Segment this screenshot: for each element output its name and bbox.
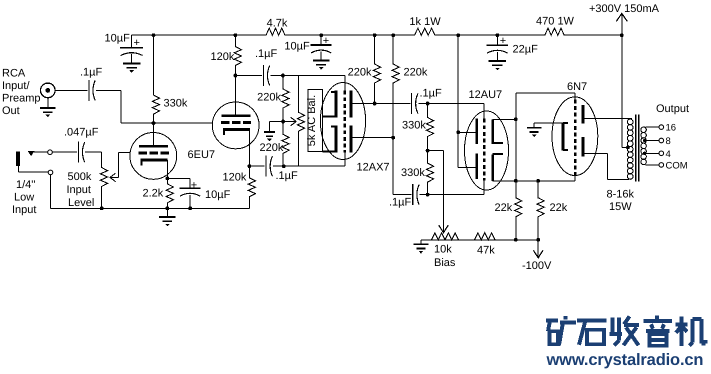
svg-text:22k: 22k bbox=[550, 202, 568, 214]
ground bus symbol bbox=[159, 208, 176, 226]
svg-text:COM: COM bbox=[666, 161, 688, 172]
node C8/330k bbox=[426, 193, 430, 197]
label transformer rating bbox=[607, 188, 635, 213]
ground 6N7 cathode bbox=[527, 123, 563, 137]
wire grid stub upper 12AU7 bbox=[483, 104, 485, 113]
svg-text:330k: 330k bbox=[402, 120, 426, 132]
resistor 330k paraphase upper bbox=[402, 104, 434, 151]
potentiometer 5k AC Bal bbox=[283, 76, 304, 167]
svg-text:12AU7: 12AU7 bbox=[469, 89, 503, 101]
node rail/120k V1b plate bbox=[234, 33, 238, 37]
svg-text:Input: Input bbox=[12, 204, 36, 216]
wire B+ center tap bbox=[622, 35, 630, 149]
resistor 1k 1W on rail bbox=[409, 16, 441, 35]
wire rail to 12AU7 plates bbox=[456, 35, 476, 167]
resistor 4.7k on rail bbox=[263, 18, 288, 36]
jack labels bbox=[12, 179, 36, 216]
node rail/220k lower bbox=[391, 33, 395, 37]
svg-text:22µF: 22µF bbox=[513, 44, 539, 56]
svg-text:500k: 500k bbox=[68, 171, 92, 183]
top B+ rail bbox=[132, 34, 622, 36]
svg-text:22k: 22k bbox=[495, 202, 513, 214]
svg-text:120k: 120k bbox=[223, 172, 247, 184]
svg-text:-100V: -100V bbox=[522, 260, 552, 272]
RCA input connector bbox=[41, 83, 56, 98]
wire cathode line to 6N7 grid bottom bbox=[516, 179, 575, 183]
svg-text:+: + bbox=[323, 35, 329, 47]
resistor 330k paraphase lower bbox=[401, 151, 434, 195]
ground RCA bbox=[40, 98, 56, 118]
ground bus bbox=[51, 207, 250, 209]
node divider center bbox=[281, 120, 285, 124]
capacitor C5 .1uF coupling to phase inverter bbox=[235, 48, 345, 86]
svg-text:Input/: Input/ bbox=[2, 80, 30, 92]
node 220k bottom bbox=[282, 164, 286, 168]
svg-text:330k: 330k bbox=[401, 167, 425, 179]
svg-text:47k: 47k bbox=[477, 245, 495, 257]
svg-text:120k: 120k bbox=[211, 51, 235, 63]
wire jack sleeve to ground bus bbox=[50, 175, 52, 209]
svg-text:Level: Level bbox=[68, 197, 94, 209]
resistor 330k plate load V1a bbox=[152, 86, 188, 123]
svg-text:.047µF: .047µF bbox=[64, 127, 99, 139]
capacitor C10 10uF decoupling bbox=[284, 35, 331, 60]
svg-text:6EU7: 6EU7 bbox=[188, 149, 216, 161]
tube V2 12AX7 phase inverter bbox=[320, 76, 365, 167]
wire jack tip to C3 bbox=[52, 151, 77, 153]
resistor 2.2k cathode V1a bbox=[143, 178, 174, 208]
svg-text:8: 8 bbox=[666, 136, 671, 147]
svg-text:220k: 220k bbox=[260, 142, 284, 154]
svg-text:Bias: Bias bbox=[434, 257, 456, 269]
resistor 220k plate load lower bbox=[392, 35, 428, 137]
svg-text:Low: Low bbox=[14, 192, 34, 204]
capacitor C3 .047uF bbox=[64, 127, 99, 163]
svg-text:15W: 15W bbox=[609, 201, 632, 213]
node 330k junction bbox=[426, 149, 430, 153]
resistor 120k cathode V1b bbox=[223, 166, 256, 208]
tube V1a 6EU7 first triode bbox=[130, 123, 177, 179]
svg-text:Output: Output bbox=[656, 103, 689, 115]
ground for C10 bbox=[313, 60, 330, 69]
wire grid stub lower 12AU7 bbox=[483, 186, 485, 195]
wire to 6N7 grid top bbox=[516, 93, 575, 97]
resistor 470 1W on rail bbox=[536, 16, 575, 36]
output transformer T1 bbox=[627, 115, 646, 182]
svg-text:1/4'': 1/4'' bbox=[16, 179, 36, 191]
potentiometer 10k bias bbox=[430, 233, 461, 269]
1/4 inch jack bbox=[16, 150, 53, 175]
svg-text:www.crystalradio.cn: www.crystalradio.cn bbox=[546, 351, 704, 369]
svg-text:+300V 150mA: +300V 150mA bbox=[589, 3, 660, 15]
capacitor C8 .1uF to 12AU7 lower grid bbox=[389, 184, 484, 208]
svg-text:10k: 10k bbox=[434, 244, 452, 256]
capacitor C6 .1uF AC bal feedback bbox=[249, 156, 345, 182]
svg-text:5k AC Bal.: 5k AC Bal. bbox=[306, 95, 318, 146]
wire plate node to V1b grid bbox=[154, 122, 213, 124]
resistor 220k upper grid divider bbox=[257, 76, 289, 122]
label box 5k AC Bal bbox=[306, 90, 323, 152]
node plate V1b bbox=[234, 74, 238, 78]
node rail/330k bbox=[152, 33, 156, 37]
resistor 22k left bbox=[495, 196, 522, 240]
ground for bias pot bbox=[414, 240, 429, 254]
svg-text:Preamp: Preamp bbox=[2, 93, 41, 105]
capacitor C1 10uF input bypass bbox=[105, 33, 144, 64]
svg-text:+: + bbox=[191, 179, 197, 191]
wire cathode bus vertical bbox=[514, 93, 518, 196]
svg-text:220k: 220k bbox=[404, 67, 428, 79]
wire junction to bias pot bbox=[428, 151, 449, 233]
resistor 22k right bbox=[537, 181, 568, 240]
svg-text:4: 4 bbox=[666, 149, 671, 160]
wire RCA to C2 bbox=[55, 89, 88, 91]
svg-text:2.2k: 2.2k bbox=[143, 188, 164, 200]
ground for C9 bbox=[489, 61, 507, 70]
capacitor C9 22uF bbox=[487, 35, 538, 61]
svg-text:10µF: 10µF bbox=[205, 189, 231, 201]
svg-text:1k 1W: 1k 1W bbox=[409, 16, 441, 28]
resistor 120k plate load V1b bbox=[211, 35, 242, 75]
capacitor C2 .1uF RCA coupling bbox=[80, 66, 103, 101]
wire 6N7 lower plate to transformer bbox=[584, 153, 629, 179]
svg-text:4.7k: 4.7k bbox=[267, 18, 288, 30]
wire rail down to 330k bbox=[153, 35, 155, 86]
bias network wire bbox=[421, 238, 540, 242]
secondary taps bbox=[643, 123, 688, 172]
svg-text:6N7: 6N7 bbox=[567, 81, 587, 93]
svg-text:+: + bbox=[500, 35, 506, 47]
node cathode V1b bbox=[248, 164, 252, 168]
node rail/22uF bbox=[496, 33, 500, 37]
svg-text:470 1W: 470 1W bbox=[536, 16, 575, 28]
svg-text:330k: 330k bbox=[164, 98, 188, 110]
capacitor C4 10uF cathode bypass bbox=[167, 178, 230, 208]
svg-text:12AX7: 12AX7 bbox=[357, 161, 390, 173]
wire to ground small bbox=[264, 122, 283, 142]
svg-text:.1µF: .1µF bbox=[80, 66, 103, 78]
node plate V1a bbox=[152, 121, 156, 125]
svg-text:10µF: 10µF bbox=[105, 33, 131, 45]
+300V supply arrow bbox=[589, 3, 660, 37]
RCA labels bbox=[2, 68, 41, 118]
svg-text:220k: 220k bbox=[348, 67, 372, 79]
svg-text:8-16k: 8-16k bbox=[607, 188, 635, 200]
tube V3 12AU7 cathode follower bbox=[465, 111, 516, 190]
resistor 220k plate load upper bbox=[348, 35, 381, 103]
svg-text:RCA: RCA bbox=[2, 68, 26, 80]
svg-text:10µF: 10µF bbox=[284, 41, 310, 53]
svg-text:Input: Input bbox=[67, 184, 91, 196]
node rail/12AU7 plates bbox=[456, 33, 460, 37]
-100V arrow bbox=[522, 240, 552, 272]
node rail/220k upper bbox=[373, 33, 377, 37]
resistor 220k lower grid divider bbox=[260, 122, 290, 167]
tube V1b 6EU7 second triode bbox=[212, 76, 259, 167]
wire lower plate to coupling bbox=[352, 136, 411, 195]
svg-text:Out: Out bbox=[2, 105, 20, 117]
svg-text:.1µF: .1µF bbox=[255, 48, 278, 60]
wire C2 to plate node V1a bbox=[96, 90, 154, 123]
svg-text:.1µF: .1µF bbox=[276, 170, 299, 182]
potentiometer 500k input level bbox=[67, 152, 131, 209]
node 330k top bbox=[426, 102, 430, 106]
svg-text:220k: 220k bbox=[257, 92, 281, 104]
tube V4 6N7 output bbox=[552, 97, 598, 181]
capacitor C7 .1uF to 12AU7 upper grid bbox=[412, 88, 485, 115]
resistor 47k bbox=[472, 233, 498, 257]
wire C3 to pot bbox=[85, 151, 102, 153]
ground for C1 bbox=[123, 63, 141, 72]
node grid bus bbox=[281, 74, 285, 78]
svg-text:16: 16 bbox=[666, 123, 677, 134]
wire upper plate to coupling bbox=[352, 102, 410, 106]
svg-text:.1µF: .1µF bbox=[420, 88, 443, 100]
svg-text:+: + bbox=[134, 37, 140, 49]
svg-text:.1µF: .1µF bbox=[389, 196, 412, 208]
node rail/10uF decoupler bbox=[319, 33, 323, 37]
wire 6N7 upper plate to transformer bbox=[584, 118, 632, 120]
node cathode V1a bbox=[166, 177, 170, 181]
watermark logo 矿石收音机 bbox=[546, 316, 576, 346]
